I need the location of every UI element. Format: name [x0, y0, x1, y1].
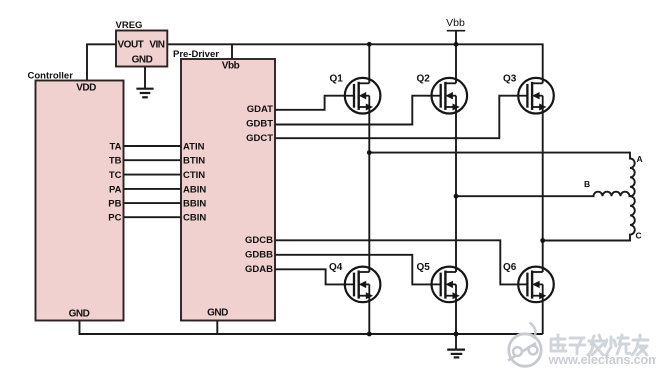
- svg-text:VREG: VREG: [116, 20, 143, 31]
- svg-text:Q4: Q4: [329, 262, 343, 273]
- svg-text:VDD: VDD: [76, 83, 96, 94]
- svg-text:Q6: Q6: [503, 262, 517, 273]
- svg-text:GDCT: GDCT: [246, 133, 273, 144]
- svg-text:GDAB: GDAB: [245, 264, 273, 275]
- svg-text:GND: GND: [207, 308, 228, 319]
- svg-text:VOUT: VOUT: [118, 40, 144, 51]
- svg-text:PC: PC: [108, 213, 121, 224]
- svg-text:ATIN: ATIN: [183, 142, 205, 153]
- svg-text:Q2: Q2: [417, 74, 431, 85]
- svg-text:PA: PA: [109, 184, 122, 195]
- svg-text:Pre-Driver: Pre-Driver: [173, 49, 219, 60]
- svg-text:A: A: [637, 154, 643, 164]
- svg-text:CTIN: CTIN: [183, 170, 205, 181]
- svg-text:Q3: Q3: [503, 74, 517, 85]
- svg-text:GDBB: GDBB: [245, 249, 273, 260]
- svg-text:PB: PB: [108, 199, 121, 210]
- svg-text:www.elecfans.com: www.elecfans.com: [548, 352, 656, 367]
- svg-text:GND: GND: [132, 55, 153, 66]
- svg-text:Q5: Q5: [417, 262, 431, 273]
- svg-text:B: B: [584, 179, 590, 189]
- svg-text:TC: TC: [109, 170, 122, 181]
- svg-text:GDAT: GDAT: [247, 104, 273, 115]
- svg-text:Controller: Controller: [28, 71, 74, 82]
- svg-text:Vbb: Vbb: [222, 61, 240, 72]
- svg-text:BTIN: BTIN: [183, 156, 205, 167]
- svg-text:VIN: VIN: [149, 40, 164, 51]
- svg-text:TB: TB: [109, 156, 122, 167]
- svg-text:TA: TA: [110, 142, 122, 153]
- svg-text:Q1: Q1: [330, 74, 344, 85]
- svg-text:ABIN: ABIN: [183, 184, 206, 195]
- svg-text:GDBT: GDBT: [246, 119, 273, 130]
- svg-text:BBIN: BBIN: [183, 199, 206, 210]
- svg-text:Vbb: Vbb: [446, 17, 465, 29]
- svg-text:GDCB: GDCB: [245, 235, 273, 246]
- svg-text:CBIN: CBIN: [183, 213, 206, 224]
- svg-text:C: C: [636, 231, 642, 241]
- svg-text:GND: GND: [69, 309, 90, 320]
